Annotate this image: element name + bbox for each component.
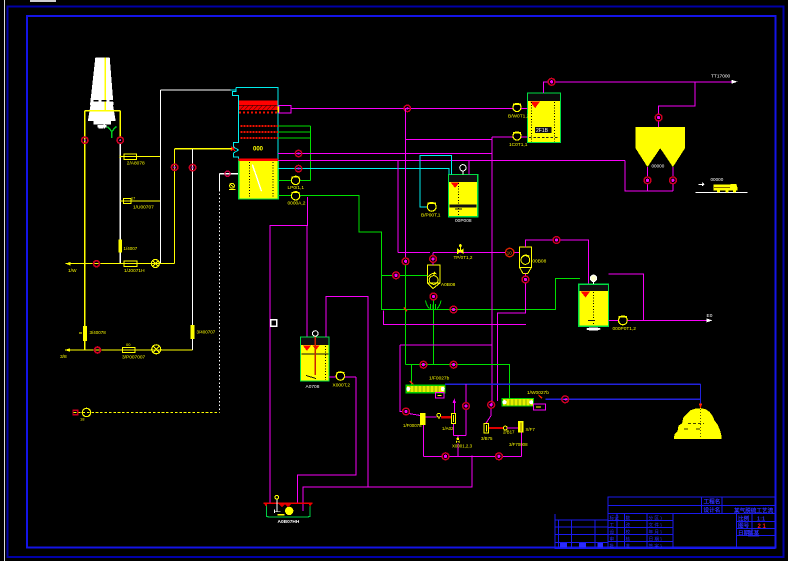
wire blue belt line 1 (445, 383, 701, 385)
wire hopper discharge (625, 160, 673, 191)
wire bypass yellow (175, 147, 235, 264)
tank T2 (448, 175, 477, 224)
pump on line A (151, 260, 159, 268)
svg-text:改: 改 (626, 521, 631, 528)
svg-text:10: 10 (507, 251, 512, 256)
svg-text:E0: E0 (707, 313, 713, 319)
node bubble green1 (420, 361, 427, 368)
svg-text:X0001,2,3: X0001,2,3 (452, 444, 473, 449)
hand valve HV1 (437, 413, 441, 419)
wire magenta long y320 (384, 311, 527, 325)
wire green to S1 (381, 274, 427, 276)
svg-text:某气脱硫工艺流: 某气脱硫工艺流 (734, 507, 774, 515)
feeder cluster magenta loop (400, 345, 522, 457)
svg-text:1/A02: 1/A02 (442, 426, 454, 431)
separator S2 (519, 247, 546, 274)
wire magenta boiler to tank1 y108 (291, 107, 513, 109)
svg-text:18: 18 (80, 417, 85, 422)
svg-text:0000A,2: 0000A,2 (288, 201, 306, 207)
line B yellow (60, 342, 193, 361)
svg-text:00000: 00000 (652, 164, 665, 169)
node red circle white line (189, 164, 195, 170)
wire white to line B (192, 149, 194, 350)
wire green recirculation long (300, 196, 580, 310)
svg-text:标记: 标记 (610, 514, 620, 521)
title block (555, 497, 775, 548)
svg-text:比例: 比例 (738, 514, 750, 522)
wire magenta hopper line y160 (278, 160, 625, 174)
chimney (88, 58, 116, 130)
wire magenta link y139 (406, 139, 492, 141)
svg-text:数: 数 (626, 514, 631, 521)
svg-text:00B08: 00B08 (532, 258, 546, 264)
tank T3 (579, 284, 609, 330)
node bubble green2 (450, 361, 457, 368)
wire magenta drain from pumps (270, 197, 308, 503)
drain symbol at furnace (229, 183, 236, 189)
node circle loop1 (442, 453, 449, 460)
node circle cyan (295, 165, 301, 171)
svg-text:设: 设 (610, 528, 615, 535)
node circle 10 (506, 248, 514, 256)
svg-text:批: 批 (610, 542, 615, 549)
wire E0 outfall (627, 313, 712, 322)
wire magenta boiler y153 (278, 153, 492, 155)
svg-text:A0B07HH: A0B07HH (278, 519, 300, 525)
svg-text:3/P007007: 3/P007007 (122, 355, 146, 361)
motor on T4 (313, 331, 319, 337)
svg-text:1/W0027b: 1/W0027b (527, 390, 549, 396)
svg-text:00000: 00000 (711, 177, 724, 182)
wire S2 bottom magenta (497, 273, 525, 401)
svg-text:2/A8078: 2/A8078 (127, 161, 145, 167)
wire green water main (406, 265, 510, 399)
node circle on blue (562, 396, 569, 403)
wire flue gas white down (161, 88, 237, 264)
pump with X on line B (152, 345, 161, 354)
motor on T3 (590, 275, 596, 284)
svg-text:年 月 }: 年 月 } (649, 528, 663, 535)
flare tip symbol (107, 127, 117, 139)
pump LP1 (278, 176, 310, 191)
pump T1-P2 (492, 132, 528, 148)
wire S1 funnel down green (432, 300, 434, 365)
wire stack left pipe (85, 111, 120, 350)
svg-text:B/P00T,1: B/P00T,1 (421, 212, 441, 218)
node circle hopper out2 (670, 177, 677, 184)
node red circle stack right (117, 137, 123, 143)
svg-text:文 件 }: 文 件 } (649, 521, 663, 528)
boiler outline (233, 88, 279, 159)
butterfly valve on y252 (454, 244, 473, 260)
pump T4-P1 (329, 372, 356, 389)
node bubble S1 top (430, 256, 437, 263)
node bubble under S1 (430, 293, 437, 300)
motor on T2 (460, 165, 466, 175)
svg-text:B/W0T1,2: B/W0T1,2 (508, 113, 530, 119)
svg-text:1/J0071H: 1/J0071H (124, 268, 145, 274)
svg-text:分 区 ): 分 区 ) (649, 514, 663, 521)
valve tick on green (404, 307, 407, 311)
node circle y153 (295, 150, 301, 156)
separator S1 (426, 265, 456, 310)
svg-text:1/U00707: 1/U00707 (133, 204, 154, 210)
pump T2-P1 (421, 202, 441, 218)
svg-text:X/F7: X/F7 (526, 427, 536, 432)
wire magenta vertical x405 (405, 108, 407, 258)
wire clarifier collector (303, 455, 472, 511)
svg-text:LP0/1,1: LP0/1,1 (288, 185, 305, 191)
wire separator line y252 (433, 253, 519, 256)
svg-text:核: 核 (626, 535, 631, 542)
pump T1-P1 (508, 104, 530, 120)
wire mixer pump to clarifier (297, 377, 356, 503)
svg-text:2F1B: 2F1B (536, 128, 549, 134)
feeder F2 (442, 414, 456, 431)
node bubble under S2 (522, 276, 529, 283)
boiler red band 2 hatched (239, 105, 278, 110)
svg-text:3/F70008: 3/F70008 (509, 442, 528, 447)
svg-text:1/F0027b: 1/F0027b (429, 375, 450, 381)
svg-text:签 字 }: 签 字 } (649, 542, 663, 548)
wire mixer top feed (326, 297, 368, 487)
svg-text:17: 17 (131, 197, 135, 201)
pump T3-P1 (608, 316, 636, 332)
node bubble left of S1 (402, 258, 409, 265)
svg-text:3/400707: 3/400707 (197, 330, 216, 335)
svg-text:3/40078: 3/40078 (90, 330, 107, 335)
damper D2 red (489, 426, 518, 435)
clarifier basin (263, 495, 312, 524)
stockpile (674, 408, 722, 439)
wire blue belt line 2 (545, 384, 702, 408)
truck (696, 177, 748, 192)
line C dashed yellow (73, 408, 220, 421)
svg-text:2/B17: 2/B17 (503, 430, 515, 435)
small valve SV1 (452, 438, 473, 449)
svg-text:000: 000 (253, 147, 264, 153)
node circle cl2 (463, 403, 470, 410)
wire magenta vertical x397 (398, 160, 430, 252)
node circle cl3 (488, 401, 495, 408)
svg-text:TT17000: TT17000 (711, 74, 731, 80)
signature table (555, 520, 608, 549)
node red circle bypass (171, 164, 177, 170)
svg-text:1/W: 1/W (68, 268, 77, 274)
node bubble y240 (553, 237, 560, 244)
svg-text:X000T,2: X000T,2 (333, 382, 351, 388)
svg-text:00P008: 00P008 (455, 218, 472, 224)
svg-text:3/B75: 3/B75 (481, 436, 493, 441)
svg-text:1C0T1,1: 1C0T1,1 (509, 142, 528, 148)
boiler tube band 3 (241, 137, 278, 139)
svg-text:校: 校 (626, 528, 631, 535)
svg-text:TP/0T1,2: TP/0T1,2 (454, 255, 473, 260)
node bubble on green y309 (450, 306, 457, 313)
wire hopper top line (659, 82, 696, 127)
feeder F1 (403, 399, 456, 429)
node red circle stack left (82, 137, 88, 143)
line A yellow (65, 261, 174, 274)
wire stack right pipe (119, 111, 121, 264)
wire green tube stubs (278, 126, 310, 180)
boiler red band 1 (239, 100, 278, 105)
wire T2 top to separator line (468, 161, 470, 174)
svg-text:1/4007: 1/4007 (124, 246, 138, 251)
wire magenta vertical x491 (491, 137, 493, 405)
node furnace inlet circle (225, 171, 230, 176)
wire cyan to tank2 (278, 169, 449, 175)
svg-text:某某: 某某 (748, 529, 760, 537)
tank T1 2F1B (528, 93, 561, 143)
svg-text:3/8: 3/8 (60, 354, 67, 360)
boiler tube band 1 (241, 125, 278, 127)
furnace vessel (239, 159, 279, 199)
svg-text:A0708: A0708 (306, 384, 320, 390)
conveyor CV1 (406, 375, 449, 398)
pump LP2 (278, 192, 306, 207)
valve V3 on left stack pipe (79, 326, 106, 341)
svg-text:图号: 图号 (738, 521, 750, 529)
boiler red dashed band (239, 112, 278, 114)
svg-text:审: 审 (610, 535, 615, 542)
boiler outlet stub box (278, 106, 291, 114)
valve V1 (118, 240, 137, 253)
svg-text:1/F00078: 1/F00078 (403, 423, 422, 428)
conveyor CV2 (502, 390, 549, 410)
wire furnace feed dashed white (220, 174, 238, 413)
valve on line A (94, 261, 100, 267)
svg-text:1:1: 1:1 (757, 516, 765, 522)
wire cyan pump loop T2 (420, 156, 452, 207)
svg-text:A0B08: A0B08 (441, 282, 456, 288)
svg-text:000P0T1,2: 000P0T1,2 (613, 326, 637, 332)
feeder F3 (481, 423, 493, 440)
feeder F4 (509, 422, 535, 447)
svg-text:工程名: 工程名 (704, 498, 721, 506)
wire TT17000 line (544, 74, 738, 94)
damper D1 red (441, 416, 451, 418)
node white square on drain (271, 320, 277, 326)
wire S2 top to tank3 (525, 240, 588, 284)
svg-text:2 1: 2 1 (758, 524, 767, 530)
node circle TT (548, 78, 555, 85)
svg-text:00: 00 (126, 342, 131, 347)
node bubble on green (393, 272, 400, 279)
node circle hopper top (655, 114, 662, 121)
svg-text:设计名: 设计名 (704, 506, 721, 514)
svg-text:准: 准 (626, 542, 631, 549)
wire S1 top stub (432, 262, 434, 265)
node circle loop2 (496, 453, 503, 460)
boiler tube band 2 (241, 131, 278, 133)
wire T3 overflow loop (608, 274, 643, 320)
tank T4 mixer (301, 336, 330, 390)
instrument FI2 (120, 197, 160, 211)
valve on line B (95, 347, 101, 353)
instrument FI1 (119, 154, 161, 167)
node circle hopper out1 (644, 177, 651, 184)
node circle y108 (404, 105, 410, 111)
svg-text:工: 工 (610, 522, 615, 527)
hopper dust collector (636, 127, 686, 169)
valve V2 (191, 325, 216, 339)
node circle cl1 (403, 408, 410, 415)
